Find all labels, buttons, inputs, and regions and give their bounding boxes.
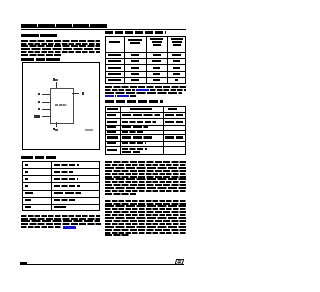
t3 row EWEN bbox=[107, 126, 116, 128]
t3 row READ bbox=[107, 114, 116, 116]
pin ORG label bbox=[34, 115, 41, 117]
SUMMARY DESCRIPTION heading bbox=[21, 34, 39, 37]
t2 row M93C66 bbox=[108, 67, 121, 69]
pin ORG wire bbox=[42, 115, 50, 118]
pin S wire bbox=[42, 108, 50, 111]
vss label bbox=[53, 128, 55, 130]
table 1 frame bbox=[22, 161, 101, 211]
t3 row WRAL two lines bbox=[107, 149, 117, 151]
t2 header col3 bbox=[150, 38, 163, 40]
t2 header col2 bbox=[128, 39, 142, 41]
footer rule bbox=[20, 264, 184, 265]
table 1 caption: Table 1. Signal Names bbox=[21, 156, 33, 159]
figure box bbox=[22, 62, 101, 150]
chip label M93Cx6 bbox=[55, 104, 68, 106]
t2 row M93C46 bbox=[108, 54, 121, 56]
table 1 row lines bbox=[22, 168, 101, 169]
t3 row WRITE bbox=[107, 121, 117, 123]
t2 header: Reference bbox=[109, 41, 120, 43]
pin C label bbox=[38, 101, 40, 103]
t1 row cells: S / Chip Select Input bbox=[25, 164, 28, 166]
pin S label bbox=[38, 108, 40, 110]
right paragraph 1 bbox=[105, 161, 186, 163]
paragraph after t2 bbox=[105, 86, 186, 88]
chip U1 bbox=[50, 88, 74, 124]
t2 horizontals bbox=[105, 52, 186, 53]
t2 row M93C56 bbox=[108, 60, 121, 62]
hyperlink www.st.com bbox=[63, 226, 76, 228]
table 2 caption: Table 2. Device sizes and organization bbox=[105, 31, 166, 34]
right paragraph 2 bbox=[105, 200, 186, 202]
t2 verticals bbox=[124, 36, 125, 84]
t3 row EWDS bbox=[107, 131, 116, 133]
t1: C / Serial Clock bbox=[25, 171, 28, 173]
table 3 caption: Table 3. Instruction set bbox=[105, 100, 163, 103]
vcc label bbox=[53, 78, 55, 80]
left paragraph 2 bbox=[21, 215, 100, 217]
t2 row M93C76 bbox=[108, 73, 121, 75]
t1: VCC / Supply Voltage bbox=[25, 199, 31, 201]
pin Q label bbox=[82, 92, 84, 94]
t3 verticals bbox=[120, 106, 121, 155]
figure 1 caption: Figure 1. Logic Diagram bbox=[21, 58, 34, 61]
ST logo bbox=[175, 259, 184, 265]
t1: ORG / Organization Select bbox=[25, 192, 33, 194]
pin D label bbox=[38, 93, 40, 95]
t1: Q / Serial Data Output bbox=[25, 185, 28, 187]
vcc wire bbox=[55, 82, 58, 89]
t1: D / Serial Data Input bbox=[25, 178, 28, 180]
vss wire bbox=[55, 122, 58, 128]
footer page number 2/35 bbox=[20, 262, 27, 265]
table 2 frame bbox=[105, 36, 186, 84]
pin C wire bbox=[42, 101, 50, 104]
t3 row ERASE bbox=[107, 136, 118, 138]
table 3 frame bbox=[105, 106, 186, 155]
table 1 col divider bbox=[51, 161, 52, 211]
pin D wire bbox=[42, 93, 50, 96]
header part numbers M93C86, M93C76, M93C66, M93C56, M93C46 bbox=[21, 24, 107, 28]
t1: VSS / Ground bbox=[25, 206, 31, 208]
t2 header col4 bbox=[171, 38, 183, 40]
paragraph 1 bbox=[21, 40, 100, 42]
t3 horizontals bbox=[105, 112, 186, 113]
t3 row ERAL bbox=[107, 142, 116, 144]
header rule bbox=[21, 28, 186, 31]
figure ref code AI01949B bbox=[85, 129, 93, 131]
t2 row M93C86 bbox=[108, 79, 121, 81]
t3 header row bbox=[107, 108, 118, 110]
pin Q wire bbox=[72, 92, 80, 95]
